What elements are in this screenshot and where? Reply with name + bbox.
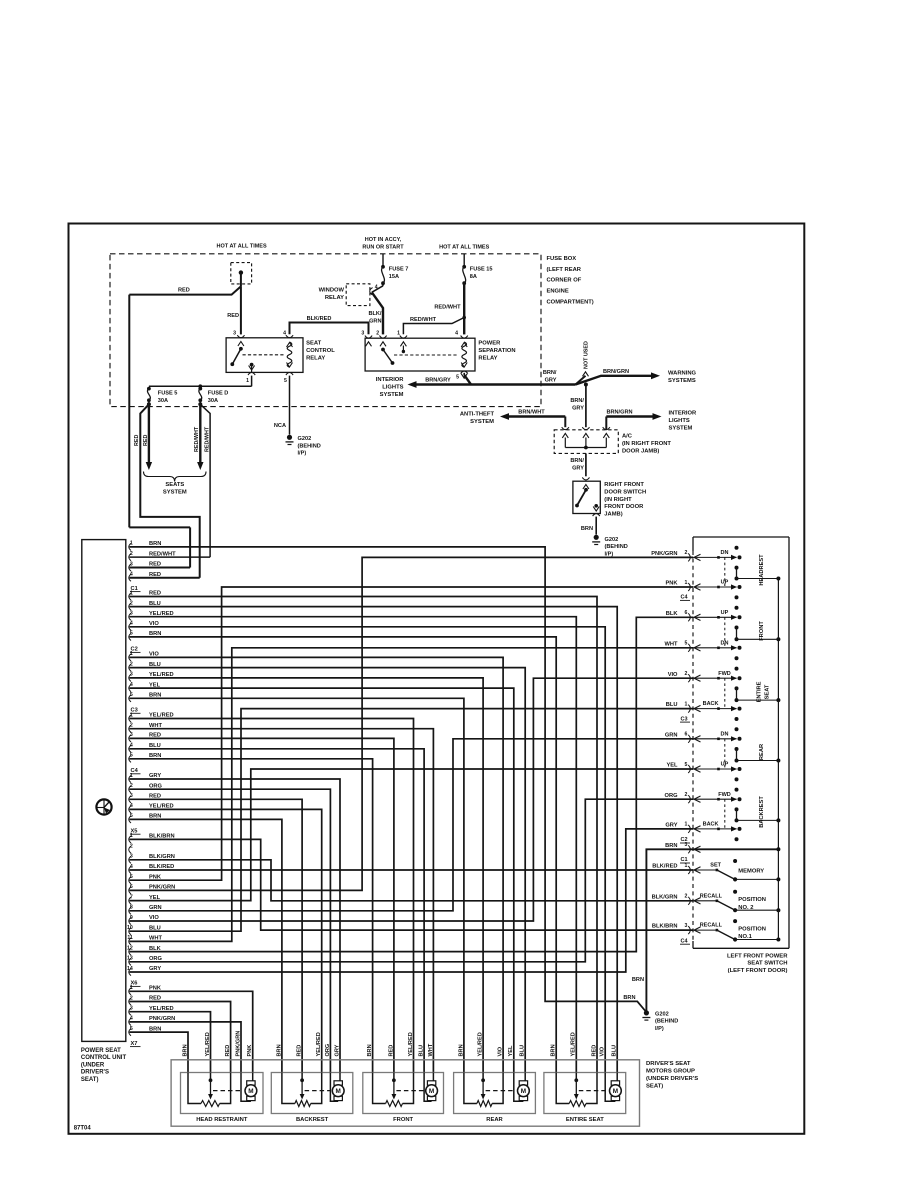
svg-text:LIGHTS: LIGHTS [382,385,403,391]
svg-text:MEMORY: MEMORY [738,869,764,875]
svg-text:HOT IN ACCY,: HOT IN ACCY, [365,237,402,243]
svg-text:GRY: GRY [334,1044,340,1056]
svg-text:M: M [336,1088,341,1095]
svg-text:BLK/: BLK/ [368,311,381,317]
svg-text:1: 1 [685,580,688,586]
svg-text:FUSE 5: FUSE 5 [158,391,178,397]
svg-text:DRIVER'S SEAT: DRIVER'S SEAT [646,1061,691,1067]
svg-text:RED/WHT: RED/WHT [434,305,461,311]
svg-text:GRY: GRY [572,466,584,472]
svg-text:4: 4 [130,803,133,809]
svg-text:8A: 8A [470,274,477,280]
svg-text:4: 4 [130,743,133,749]
svg-text:2: 2 [685,894,688,900]
svg-text:NCA: NCA [274,423,286,429]
svg-text:5: 5 [284,378,287,384]
svg-text:(BEHIND: (BEHIND [605,544,628,550]
svg-text:BACKREST: BACKREST [296,1117,329,1123]
svg-text:UP: UP [721,580,729,586]
svg-text:LEFT FRONT POWER: LEFT FRONT POWER [727,953,788,959]
svg-text:SYSTEM: SYSTEM [669,426,693,432]
svg-text:RED: RED [297,1045,303,1057]
svg-text:BLK: BLK [666,611,679,617]
svg-text:POSITION: POSITION [738,927,766,933]
svg-text:M: M [521,1088,526,1095]
svg-text:BLU: BLU [419,1045,425,1057]
svg-text:M: M [248,1088,253,1095]
svg-text:5: 5 [130,753,133,759]
svg-text:YEL/RED: YEL/RED [478,1032,484,1056]
svg-text:GRN: GRN [665,732,678,738]
svg-text:3: 3 [685,923,688,929]
svg-text:POWER SEAT: POWER SEAT [81,1048,121,1054]
svg-text:1: 1 [130,712,133,718]
svg-text:BRN: BRN [581,526,593,532]
svg-text:HEAD RESTRAINT: HEAD RESTRAINT [196,1117,248,1123]
svg-text:11: 11 [127,935,133,941]
svg-text:VIO: VIO [668,672,678,678]
svg-text:5: 5 [130,692,133,698]
svg-text:8: 8 [130,905,133,911]
svg-text:SEAT): SEAT) [646,1083,663,1089]
svg-text:4: 4 [130,1016,133,1022]
svg-text:GRN: GRN [369,319,381,325]
svg-text:RED/WHT: RED/WHT [410,317,437,323]
svg-text:I/P): I/P) [298,451,307,457]
svg-text:DN: DN [721,640,729,646]
svg-text:RECALL: RECALL [700,923,723,929]
svg-text:PNK: PNK [247,1045,253,1057]
svg-text:4: 4 [130,682,133,688]
svg-text:A/C: A/C [622,433,633,439]
svg-text:M: M [429,1088,434,1095]
svg-text:YEL/RED: YEL/RED [408,1032,414,1056]
svg-text:C4: C4 [681,938,689,944]
svg-text:SYSTEMS: SYSTEMS [668,378,696,384]
svg-text:PNK: PNK [665,581,678,587]
svg-text:C3: C3 [681,716,688,722]
svg-text:(LEFT REAR: (LEFT REAR [547,267,582,273]
svg-text:2: 2 [130,995,133,1001]
svg-text:3: 3 [361,330,364,336]
svg-text:30A: 30A [158,398,168,404]
svg-text:RECALL: RECALL [700,893,723,899]
svg-text:PNK/GRN: PNK/GRN [651,551,677,557]
svg-text:HOT AT ALL TIMES: HOT AT ALL TIMES [217,243,267,249]
svg-text:(LEFT FRONT DOOR): (LEFT FRONT DOOR) [728,968,788,974]
svg-text:RUN OR START: RUN OR START [362,244,404,250]
svg-text:ENTIRE: ENTIRE [757,681,763,702]
svg-text:BLU: BLU [520,1045,526,1057]
svg-text:4: 4 [455,330,458,336]
svg-text:3: 3 [130,1006,133,1012]
svg-text:4: 4 [130,572,133,578]
svg-text:4: 4 [130,621,133,627]
svg-text:2: 2 [130,723,133,729]
svg-text:SYSTEM: SYSTEM [163,490,187,496]
svg-text:2: 2 [685,550,688,556]
svg-text:NO.1: NO.1 [738,934,752,940]
svg-text:X7: X7 [131,1041,138,1047]
svg-text:JAMB): JAMB) [604,512,622,518]
svg-text:SEAT: SEAT [306,340,321,346]
svg-text:DOOR SWITCH: DOOR SWITCH [604,489,646,495]
svg-text:DN: DN [721,731,729,737]
svg-text:BACK: BACK [703,822,719,828]
svg-text:LIGHTS: LIGHTS [669,418,690,424]
svg-text:1: 1 [130,985,133,991]
svg-text:C2: C2 [681,837,688,843]
svg-text:FWD: FWD [718,792,731,798]
svg-text:5: 5 [685,762,688,768]
svg-text:RED: RED [591,1045,597,1057]
svg-text:RELAY: RELAY [478,355,497,361]
svg-text:RED: RED [149,562,161,568]
svg-text:RED: RED [225,1045,231,1057]
svg-text:CONTROL UNIT: CONTROL UNIT [81,1055,127,1061]
svg-text:1: 1 [130,541,133,547]
svg-text:4: 4 [283,330,286,336]
svg-text:BLK/BRN: BLK/BRN [652,924,678,930]
svg-text:87T04: 87T04 [74,1126,92,1132]
svg-text:RED: RED [143,435,149,446]
svg-text:SEAT: SEAT [764,684,770,699]
svg-text:G202: G202 [298,436,312,442]
svg-text:RED/WHT: RED/WHT [194,426,200,452]
svg-text:1: 1 [397,330,400,336]
svg-text:C1: C1 [681,857,688,863]
svg-text:FRONT: FRONT [759,621,765,641]
svg-text:WARNING: WARNING [668,371,697,377]
svg-text:13: 13 [127,956,133,962]
svg-text:YEL/RED: YEL/RED [316,1032,322,1056]
svg-text:RED: RED [388,1045,394,1057]
svg-text:BRN/GRN: BRN/GRN [603,369,629,375]
svg-text:FWD: FWD [718,671,731,677]
svg-text:I/P): I/P) [605,551,614,557]
svg-text:PNK/GRN: PNK/GRN [235,1031,241,1057]
svg-text:C4: C4 [681,595,689,601]
svg-text:YEL: YEL [666,763,678,769]
svg-text:BLU: BLU [666,702,678,708]
svg-text:FUSE D: FUSE D [208,391,229,397]
svg-text:HOT AT ALL TIMES: HOT AT ALL TIMES [439,244,489,250]
svg-text:BACKREST: BACKREST [759,796,765,828]
svg-text:UP: UP [721,610,729,616]
svg-text:HEADREST: HEADREST [759,554,765,586]
svg-text:GRY: GRY [545,378,557,384]
svg-text:BRN/: BRN/ [570,398,584,404]
svg-text:G202: G202 [655,1011,669,1017]
svg-text:BRN: BRN [632,977,644,983]
svg-text:BRN/WHT: BRN/WHT [518,410,545,416]
svg-text:GRY: GRY [665,823,677,829]
svg-text:VIO: VIO [600,1046,606,1056]
svg-text:(BEHIND: (BEHIND [298,443,321,449]
svg-text:3: 3 [130,611,133,617]
svg-text:YEL/RED: YEL/RED [571,1032,577,1056]
svg-text:RED: RED [178,288,190,294]
svg-text:INTERIOR: INTERIOR [376,377,405,383]
svg-text:2: 2 [130,843,133,849]
svg-text:UP: UP [721,762,729,768]
svg-text:MOTORS GROUP: MOTORS GROUP [646,1069,695,1075]
svg-text:BRN/GRY: BRN/GRY [425,378,451,384]
svg-text:SEAT): SEAT) [81,1077,99,1083]
svg-text:BLK/GRN: BLK/GRN [652,894,678,900]
svg-text:FUSE 15: FUSE 15 [470,266,493,272]
svg-text:1: 1 [685,701,688,707]
svg-text:RELAY: RELAY [306,355,325,361]
svg-text:3: 3 [130,561,133,567]
svg-text:BRN: BRN [276,1044,282,1056]
svg-text:1: 1 [685,822,688,828]
svg-text:BRN: BRN [551,1044,557,1056]
svg-text:CORNER OF: CORNER OF [547,278,582,284]
svg-text:(IN RIGHT FRONT: (IN RIGHT FRONT [622,441,671,447]
svg-text:3: 3 [130,732,133,738]
svg-text:1: 1 [130,773,133,779]
svg-text:SEATS: SEATS [165,482,184,488]
svg-text:ENTIRE SEAT: ENTIRE SEAT [566,1117,604,1123]
svg-text:(UNDER DRIVER'S: (UNDER DRIVER'S [646,1076,698,1082]
svg-text:DOOR JAMB): DOOR JAMB) [622,448,659,454]
svg-text:2: 2 [130,600,133,606]
svg-text:9: 9 [130,915,133,921]
svg-text:3: 3 [130,793,133,799]
svg-text:FUSE 7: FUSE 7 [389,266,409,272]
svg-text:RIGHT FRONT: RIGHT FRONT [604,482,644,488]
svg-text:5: 5 [130,813,133,819]
svg-text:BRN: BRN [623,995,635,1001]
svg-text:BLU: BLU [612,1045,618,1057]
svg-text:GRY: GRY [572,406,584,412]
svg-text:(BEHIND: (BEHIND [655,1019,678,1025]
svg-text:I/P): I/P) [655,1026,664,1032]
svg-text:6: 6 [685,732,688,738]
svg-text:FRONT: FRONT [393,1117,413,1123]
svg-text:7: 7 [130,894,133,900]
svg-text:RED: RED [227,313,239,319]
svg-text:VIO: VIO [498,1046,504,1056]
svg-text:RED: RED [149,572,161,578]
svg-text:1: 1 [130,590,133,596]
svg-text:BACK: BACK [703,701,719,707]
svg-text:1: 1 [130,651,133,657]
svg-text:ORG: ORG [665,793,679,799]
svg-text:15A: 15A [389,274,399,280]
svg-text:4: 4 [375,285,378,291]
svg-text:5: 5 [685,641,688,647]
svg-text:1: 1 [246,378,249,384]
svg-text:POWER: POWER [478,340,501,346]
svg-text:BRN/: BRN/ [570,458,584,464]
svg-text:REAR: REAR [759,744,765,760]
svg-text:INTERIOR: INTERIOR [669,411,698,417]
svg-text:5: 5 [130,874,133,880]
svg-text:BLK/RED: BLK/RED [307,316,332,322]
svg-text:3: 3 [130,854,133,860]
svg-text:M: M [613,1088,618,1095]
svg-text:12: 12 [127,945,133,951]
svg-text:2: 2 [130,551,133,557]
svg-text:ENGINE: ENGINE [547,289,569,295]
svg-text:REAR: REAR [486,1117,503,1123]
svg-text:YEL: YEL [508,1045,514,1056]
svg-text:CONTROL: CONTROL [306,348,335,354]
svg-text:RED/WHT: RED/WHT [149,551,176,557]
svg-text:14: 14 [127,966,133,972]
svg-text:3: 3 [130,672,133,678]
svg-text:SET: SET [710,863,721,869]
svg-text:G202: G202 [605,537,619,543]
svg-text:FUSE BOX: FUSE BOX [547,256,577,262]
svg-text:ORG: ORG [325,1044,331,1057]
svg-text:3: 3 [233,330,236,336]
svg-text:WINDOW: WINDOW [319,287,345,293]
svg-text:RED: RED [134,435,140,446]
svg-text:POSITION: POSITION [738,897,766,903]
svg-text:5: 5 [130,631,133,637]
svg-text:10: 10 [127,925,133,931]
svg-text:BLK/RED: BLK/RED [652,864,677,870]
svg-text:SYSTEM: SYSTEM [380,392,404,398]
svg-text:NOT USED: NOT USED [584,341,590,369]
svg-text:ANTI-THEFT: ANTI-THEFT [460,412,495,418]
svg-text:6: 6 [130,884,133,890]
svg-text:BRN: BRN [367,1044,373,1056]
svg-text:2: 2 [130,661,133,667]
svg-text:WHT: WHT [665,641,678,647]
svg-text:DRIVER'S: DRIVER'S [81,1070,109,1076]
svg-text:2: 2 [685,671,688,677]
svg-text:30A: 30A [208,398,218,404]
svg-text:(UNDER: (UNDER [81,1062,105,1068]
svg-text:2: 2 [376,330,379,336]
svg-text:4: 4 [130,864,133,870]
svg-text:DN: DN [721,550,729,556]
svg-text:1: 1 [130,833,133,839]
svg-text:SEPARATION: SEPARATION [478,348,515,354]
svg-text:FRONT DOOR: FRONT DOOR [604,504,644,510]
svg-text:RED/WHT: RED/WHT [204,426,210,452]
svg-text:SEAT SWITCH: SEAT SWITCH [747,961,787,967]
svg-text:2: 2 [130,783,133,789]
svg-text:BRN: BRN [182,1044,188,1056]
svg-text:1: 1 [685,863,688,869]
svg-text:5: 5 [456,374,459,380]
svg-text:5: 5 [130,1026,133,1032]
svg-text:RELAY: RELAY [325,295,344,301]
svg-text:WHT: WHT [428,1043,434,1056]
svg-text:YEL/RED: YEL/RED [205,1032,211,1056]
svg-text:(IN RIGHT: (IN RIGHT [604,497,632,503]
svg-text:6: 6 [685,610,688,616]
svg-text:BRN/GRN: BRN/GRN [606,410,632,416]
svg-text:NO. 2: NO. 2 [738,905,753,911]
svg-text:SYSTEM: SYSTEM [470,419,494,425]
svg-text:COMPARTMENT): COMPARTMENT) [547,300,594,306]
svg-text:BRN: BRN [665,843,677,849]
svg-text:BRN: BRN [458,1044,464,1056]
svg-text:BRN/: BRN/ [543,370,557,376]
svg-text:2: 2 [685,792,688,798]
